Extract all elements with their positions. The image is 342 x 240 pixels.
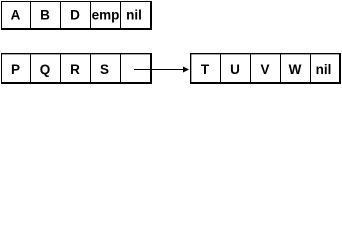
svg-text:nil: nil	[126, 8, 142, 23]
wire divider 4	[310, 53, 311, 83]
wire divider 1	[220, 53, 221, 83]
bottom-left array box (P Q R S link)	[1, 53, 152, 84]
svg-text:nil: nil	[316, 62, 332, 77]
wire divider 3	[280, 53, 281, 83]
wire top border	[1, 1, 152, 2]
wire divider 3	[90, 53, 91, 83]
wire bottom border	[190, 82, 341, 84]
wire right border	[339, 53, 341, 84]
wire pointer line	[134, 69, 184, 70]
svg-text:B: B	[40, 8, 50, 23]
svg-text:S: S	[100, 62, 109, 77]
wire left border	[1, 1, 2, 30]
top array box (A B D emp nil)	[1, 1, 152, 30]
svg-text:Q: Q	[40, 62, 51, 77]
wire top border	[1, 53, 152, 54]
svg-text:W: W	[289, 62, 302, 77]
wire divider 4	[120, 53, 121, 83]
svg-text:V: V	[260, 62, 269, 77]
wire divider 2	[60, 53, 61, 83]
svg-text:D: D	[70, 8, 80, 23]
wire left border	[1, 53, 2, 84]
bottom-right array box (T U V W nil)	[190, 53, 341, 84]
wire top border	[190, 53, 341, 54]
svg-text:U: U	[230, 62, 240, 77]
wire divider 4	[120, 1, 121, 29]
wire divider 3	[90, 1, 91, 29]
wire divider 2	[250, 53, 251, 83]
svg-text:R: R	[70, 62, 80, 77]
wire right border	[150, 1, 152, 30]
svg-text:emp: emp	[92, 8, 120, 23]
arrowhead	[183, 67, 189, 73]
svg-text:A: A	[11, 8, 21, 23]
wire bottom border	[1, 82, 152, 84]
svg-text:T: T	[201, 62, 210, 77]
wire bottom border	[1, 28, 152, 30]
wire divider 1	[30, 53, 31, 83]
wire right border	[150, 53, 152, 84]
wire divider 1	[30, 1, 31, 29]
wire left border	[190, 53, 191, 84]
wire divider 2	[60, 1, 61, 29]
svg-text:P: P	[11, 62, 20, 77]
